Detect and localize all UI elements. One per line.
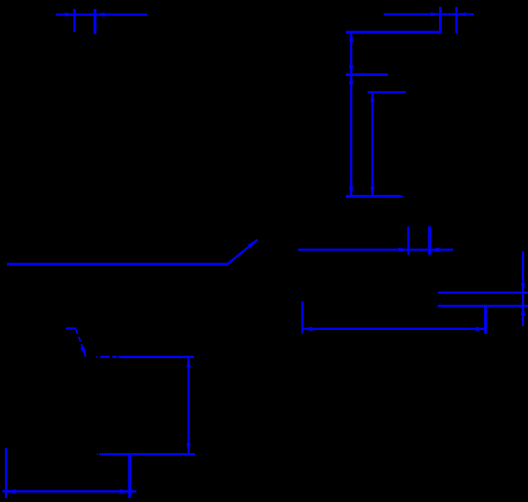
arrowhead up (bottom-left dim) bbox=[186, 358, 190, 368]
vertical dimension line (bottom-left dim) bbox=[188, 358, 190, 453]
arrowhead down (bottom-left dim) bbox=[186, 444, 190, 454]
extension line left (bottom-right dim) bbox=[301, 302, 303, 334]
extension line left (bottom dim) bbox=[5, 448, 7, 498]
dimension line (bottom dim) bbox=[2, 490, 136, 492]
arrowhead right (top-right dim) bbox=[456, 12, 466, 16]
arrowhead up (stack dim B top) bbox=[349, 75, 353, 85]
extension line right (bottom dim) bbox=[128, 454, 131, 498]
object line right lower bbox=[438, 305, 528, 307]
arrowhead up (stack dim A top) bbox=[349, 32, 353, 42]
extension line left (top-right dim) bbox=[439, 7, 442, 32]
extension line left (top-left dim) bbox=[73, 9, 75, 32]
vertical dimension line at x=523 bbox=[522, 251, 524, 326]
extension line left (middle-right dim) bbox=[407, 226, 409, 255]
object line second shelf bbox=[346, 73, 388, 76]
dimension line (bottom-right dim) bbox=[303, 328, 486, 330]
extension line right (bottom-right dim) bbox=[484, 306, 487, 334]
arrowhead down (x=372 dim) bbox=[370, 187, 374, 197]
arrowhead left (bottom dim) bbox=[6, 489, 16, 493]
arrowhead right (bottom-right dim) bbox=[476, 327, 486, 331]
leader arrowhead (middle) bbox=[248, 240, 258, 248]
arrowhead right (middle-right dim) bbox=[430, 248, 440, 252]
dimension line (top-right dim) bbox=[384, 13, 474, 15]
arrowhead down (stack dim A bottom) bbox=[349, 65, 353, 75]
leader diagonal segment (middle) bbox=[227, 240, 257, 265]
extension line right (top-right dim) bbox=[455, 7, 457, 33]
object line third shelf bbox=[368, 91, 406, 93]
object line bottom shelf with taper bbox=[346, 195, 400, 198]
dashed object line lower (bottom-left) bbox=[96, 453, 99, 455]
arrowhead left (bottom-right dim) bbox=[303, 327, 313, 331]
leader horizontal segment (middle) bbox=[7, 263, 228, 266]
dimension line (top-left dim) bbox=[56, 14, 147, 16]
arrowhead up (x=523 dim) bbox=[521, 306, 525, 316]
leader horizontal tick (bottom-left) bbox=[66, 327, 77, 329]
arrowhead down (x=523 dim) bbox=[521, 283, 525, 293]
arrowhead right (bottom dim) bbox=[120, 489, 130, 493]
vertical dimension line stack at x=351 bbox=[350, 32, 352, 196]
arrowhead down (stack dim B bottom) bbox=[349, 187, 353, 197]
dimension line (middle-right dim) bbox=[298, 249, 453, 251]
leader steep diagonal (bottom-left) bbox=[76, 329, 86, 357]
arrowhead right (top-left dim) bbox=[95, 12, 105, 16]
arrowhead left (top-right dim) bbox=[431, 12, 441, 16]
object line top shelf bbox=[346, 31, 442, 34]
leader arrowhead (bottom-left) bbox=[80, 347, 85, 357]
dashed object line upper (bottom-left) bbox=[96, 356, 97, 358]
extension line right (middle-right dim) bbox=[428, 226, 431, 255]
extension line right (top-left dim) bbox=[94, 9, 97, 34]
arrowhead up (x=372 dim) bbox=[370, 92, 374, 102]
vertical dimension line at x=372 bbox=[371, 92, 373, 196]
object line right upper bbox=[438, 292, 528, 294]
arrowhead left (top-left dim) bbox=[65, 12, 75, 16]
arrowhead left (middle-right dim) bbox=[399, 248, 409, 252]
